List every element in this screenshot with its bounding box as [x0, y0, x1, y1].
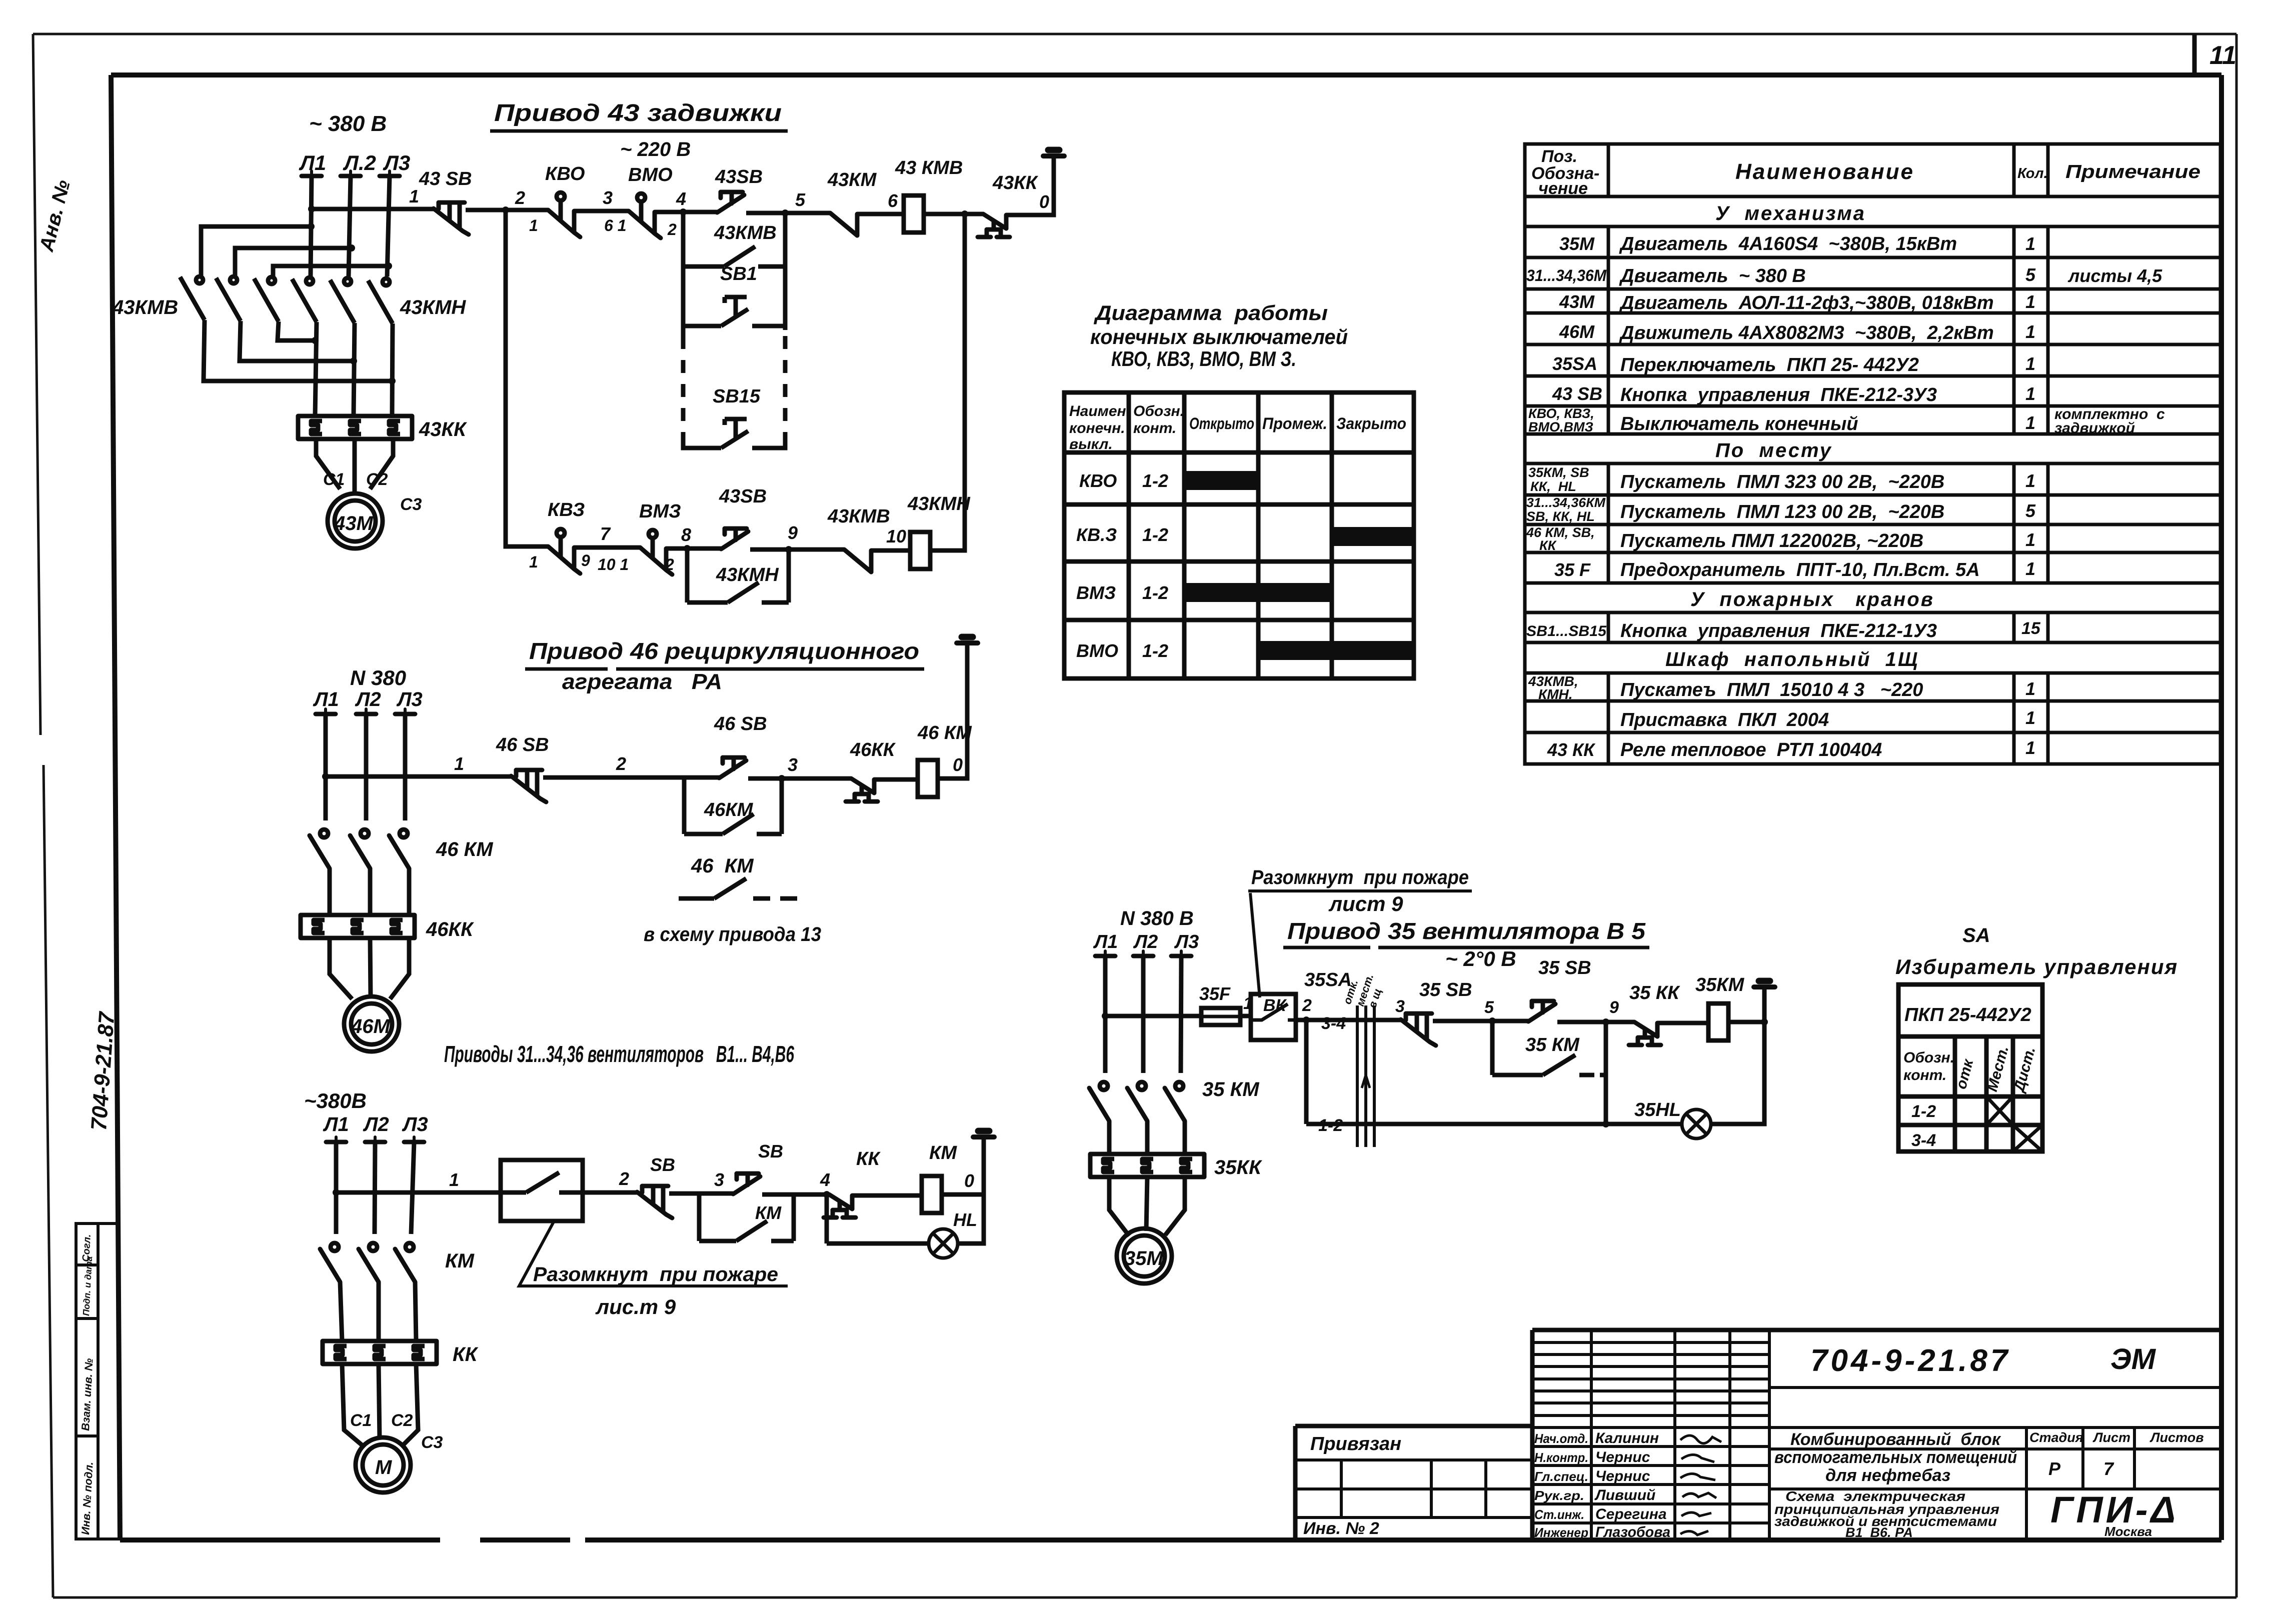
svg-text:3-4: 3-4: [1911, 1131, 1936, 1150]
wire ph3 to KK box: [1183, 1121, 1187, 1154]
svg-text:43КМ: 43КМ: [827, 169, 877, 190]
diagram table grid: [1064, 392, 1414, 678]
svg-text:35КМ, SВ: 35КМ, SВ: [1528, 465, 1589, 480]
wire lamp to ground vertical: [1711, 1022, 1764, 1124]
cable arrow: [1362, 1075, 1370, 1110]
aux contact 35KM holding: [1492, 1055, 1606, 1075]
wire phase L2: [375, 1142, 375, 1234]
svg-text:Москва: Москва: [2104, 1524, 2152, 1539]
svg-text:КМН.: КМН.: [1538, 686, 1573, 702]
svg-text:Л2: Л2: [355, 688, 381, 710]
svg-text:С2: С2: [391, 1411, 413, 1430]
svg-text:43КМН: 43КМН: [907, 493, 971, 514]
svg-text:SА: SА: [1962, 924, 1990, 946]
svg-text:15: 15: [2021, 619, 2041, 638]
signature squiggles: [1680, 1435, 1721, 1535]
svg-text:1: 1: [2025, 678, 2035, 699]
svg-text:Выключатель конечный: Выключатель конечный: [1620, 413, 1858, 434]
power contact KM ph1: [320, 1243, 340, 1282]
svg-text:35 КМ: 35 КМ: [1202, 1078, 1260, 1100]
aux contact KM holding: [699, 1221, 794, 1241]
branch 1-2 vertical: [1304, 1020, 1309, 1124]
svg-text:43М: 43М: [334, 512, 374, 534]
svg-text:Пускатель ПМЛ 122002В, ~220В: Пускатель ПМЛ 122002В, ~220В: [1620, 530, 1923, 551]
svg-text:35КК: 35КК: [1214, 1156, 1262, 1178]
node J2 on L2: [348, 244, 355, 251]
svg-text:35SА: 35SА: [1304, 969, 1352, 990]
svg-text:Предохранитель ППТ-10, Пл.Вст: Предохранитель ППТ-10, Пл.Вст. 5А: [1620, 559, 1980, 580]
svg-text:1: 1: [2025, 321, 2035, 342]
svg-text:КВО: КВО: [1079, 470, 1117, 491]
pushbutton 43SB NO row2: [721, 528, 748, 549]
svg-text:Наимен.: Наимен.: [1069, 403, 1130, 419]
svg-text:конт.: конт.: [1903, 1067, 1946, 1083]
svg-text:704-9-21.87: 704-9-21.87: [1810, 1343, 2010, 1378]
aux contact 46KM holding: [684, 814, 782, 834]
svg-text:ВМО: ВМО: [628, 164, 673, 185]
pushbutton 46SB NO: [719, 757, 746, 778]
svg-text:7: 7: [2103, 1458, 2114, 1479]
svg-text:35 F: 35 F: [1554, 559, 1591, 580]
svg-text:Избиратель управления: Избиратель управления: [1895, 955, 2178, 978]
svg-text:Поз.: Поз.: [1541, 147, 1577, 166]
svg-text:~ 380 В: ~ 380 В: [309, 111, 387, 136]
svg-text:43КМН: 43КМН: [400, 296, 466, 318]
svg-text:КК: КК: [1539, 538, 1557, 553]
thermal heater box 43KK: [298, 416, 412, 439]
svg-text:2: 2: [616, 753, 626, 774]
node B1: [389, 377, 396, 384]
bar VMO promezh-zakryto: [1258, 641, 1414, 660]
svg-text:Двигатель АОЛ-11-2ф3,~380В, 0: Двигатель АОЛ-11-2ф3,~380В, 018кВт: [1619, 292, 1994, 313]
coil KM: [922, 1176, 942, 1213]
wire ph1 to KK box: [340, 1282, 342, 1341]
power contact 46KM ph1: [310, 829, 330, 868]
svg-text:листы 4,5: листы 4,5: [2067, 265, 2162, 286]
wire ph2 to KK box: [377, 1282, 381, 1341]
svg-text:Ст.инж.: Ст.инж.: [1534, 1507, 1584, 1522]
svg-text:43КМН: 43КМН: [716, 564, 779, 585]
svg-text:9: 9: [1609, 998, 1619, 1017]
svg-text:КК: КК: [453, 1343, 479, 1365]
ground 35: [1754, 981, 1775, 987]
wire 46KK to coil: [874, 777, 918, 782]
jumper J1 L1 to contact1: [201, 226, 311, 276]
thermal contact 46KK: [846, 778, 878, 801]
svg-text:Н.контр.: Н.контр.: [1534, 1450, 1588, 1465]
svg-text:лист 9: лист 9: [1328, 892, 1403, 915]
X mark mest: [1986, 1096, 2013, 1125]
title underline 1: [525, 667, 924, 671]
limit switch KVZ: [548, 529, 580, 573]
svg-text:Калинин: Калинин: [1595, 1430, 1659, 1446]
svg-text:Переключатель ПКП 25- 442У2: Переключатель ПКП 25- 442У2: [1620, 354, 1919, 375]
svg-text:Л3: Л3: [383, 151, 410, 174]
wire to coil 43KMN: [871, 548, 910, 553]
pushbutton 46SB NC: [511, 770, 546, 802]
limit switch KVO: [548, 192, 580, 237]
svg-text:1: 1: [2025, 470, 2035, 491]
coil 46KM: [918, 760, 938, 797]
svg-text:в схему привода 13: в схему привода 13: [644, 923, 821, 945]
svg-text:46 КМ, SВ,: 46 КМ, SВ,: [1526, 525, 1595, 540]
terminal L2: [356, 709, 376, 714]
svg-text:КМ: КМ: [445, 1250, 475, 1272]
svg-text:Наименование: Наименование: [1735, 159, 1914, 184]
svg-text:SВ: SВ: [650, 1154, 675, 1175]
power contact 46KM ph2: [350, 829, 370, 868]
wire SBno to 46KK: [748, 776, 851, 781]
svg-text:1-2: 1-2: [1142, 524, 1168, 545]
bar VMZ otkryto-promezh: [1184, 583, 1332, 602]
coil 43KMV: [904, 195, 924, 232]
svg-text:1-2: 1-2: [1142, 470, 1168, 491]
svg-text:ВМО: ВМО: [1076, 640, 1118, 661]
node tap on L1: [322, 773, 329, 780]
title underline: [1283, 946, 1649, 949]
power contact 35KM ph3: [1165, 1082, 1185, 1121]
svg-text:2: 2: [1302, 996, 1312, 1015]
wire ph1 to KK: [328, 868, 332, 915]
wire contact6 lead: [392, 323, 393, 416]
svg-text:2: 2: [665, 555, 674, 573]
branch 1-2 wire to lamp: [1306, 1122, 1682, 1126]
svg-text:43КК: 43КК: [419, 418, 467, 440]
svg-text:SВ15: SВ15: [713, 386, 761, 407]
cable marker three lines: [1357, 1005, 1374, 1147]
svg-text:Привод 43 задвижки: Привод 43 задвижки: [494, 100, 782, 126]
svg-text:5: 5: [795, 189, 806, 210]
svg-text:Нач.отд.: Нач.отд.: [1534, 1431, 1588, 1446]
wire motor feed 2: [353, 439, 357, 494]
node 4 junction: [823, 1191, 830, 1198]
fuse 35F: [1201, 1008, 1240, 1025]
wire node2 to cable: [1296, 1018, 1401, 1022]
fire interlock box: [501, 1160, 583, 1221]
svg-text:Привод 35 вентилятора В 5: Привод 35 вентилятора В 5: [1287, 918, 1646, 944]
wire phase L3: [411, 1142, 414, 1234]
power contact 35KM ph2: [1127, 1082, 1147, 1121]
wire KK to coil: [852, 1193, 922, 1198]
node 2 junction: [502, 206, 509, 213]
svg-text:46КК: 46КК: [426, 918, 474, 940]
svg-text:10: 10: [886, 526, 906, 546]
svg-text:31...34,36КМ: 31...34,36КМ: [1526, 495, 1606, 510]
terminal L2: [341, 171, 361, 176]
branch vertical right row1: [783, 213, 788, 330]
wire VMO to 43SBopen: [655, 210, 717, 214]
svg-text:~380В: ~380В: [304, 1089, 367, 1112]
power contact KM ph2: [359, 1243, 379, 1282]
svg-text:С2: С2: [366, 470, 388, 489]
ground 46: [957, 637, 978, 643]
svg-text:2: 2: [515, 187, 525, 208]
svg-text:10 1: 10 1: [598, 555, 629, 573]
wire coil to ground: [938, 645, 967, 778]
wire ph1 to KK box: [1107, 1121, 1112, 1154]
wire control tap to 43SB: [312, 207, 434, 211]
svg-text:С1: С1: [350, 1411, 372, 1430]
power contact KM ph3: [395, 1243, 415, 1282]
svg-text:Диаграмма работы: Диаграмма работы: [1094, 301, 1328, 324]
svg-text:конечных выключателей: конечных выключателей: [1090, 325, 1348, 348]
svg-text:3: 3: [1395, 997, 1405, 1016]
svg-text:35 КМ: 35 КМ: [1525, 1034, 1580, 1055]
svg-text:43 КК: 43 КК: [1547, 739, 1596, 760]
limit switch VMO: [629, 193, 661, 238]
contactor 43KMV contact 1: [180, 276, 205, 320]
svg-text:для нефтебаз: для нефтебаз: [1825, 1466, 1950, 1485]
svg-text:ЭМ: ЭМ: [2110, 1343, 2156, 1375]
pushbutton SB NC: [637, 1186, 672, 1218]
wire ph3 to KK: [407, 868, 412, 915]
svg-text:Л1: Л1: [323, 1113, 349, 1135]
wire coil up to shared node: [930, 214, 965, 550]
svg-text:Пускатель ПМЛ 123 00 2В, ~22: Пускатель ПМЛ 123 00 2В, ~220В: [1620, 501, 1944, 522]
svg-text:Л3: Л3: [402, 1113, 428, 1135]
node tap on L1: [333, 1189, 340, 1196]
svg-text:Глазобова: Глазобова: [1595, 1524, 1670, 1540]
thermal heater box 46KK: [301, 915, 415, 938]
wire phase L1: [334, 1142, 339, 1234]
svg-text:46М: 46М: [351, 1015, 391, 1037]
svg-text:Л1: Л1: [313, 688, 339, 710]
svg-text:7: 7: [600, 523, 611, 544]
svg-text:0: 0: [1039, 191, 1049, 212]
svg-text:Открыто: Открыто: [1189, 414, 1254, 432]
pushbutton 35SB NO: [1528, 1001, 1555, 1021]
svg-text:Инв. № 2: Инв. № 2: [1303, 1519, 1379, 1538]
terminal L3: [395, 709, 415, 714]
svg-text:5: 5: [2025, 264, 2036, 285]
terminal L3: [1171, 951, 1191, 956]
holding branch row2 verticals: [685, 548, 690, 602]
ground c31: [973, 1131, 994, 1137]
svg-text:Ливший: Ливший: [1594, 1487, 1655, 1503]
svg-text:46 КМ: 46 КМ: [436, 838, 494, 860]
wire contact4 lead: [315, 322, 317, 416]
wire coil to ground node: [1728, 989, 1764, 1022]
wire 35SBnc to 35SBno: [1433, 1019, 1528, 1023]
ground row1: [1043, 150, 1064, 156]
svg-text:46КМ: 46КМ: [704, 799, 754, 820]
motor 46M: [344, 996, 399, 1051]
wire 43SBno to node5: [746, 211, 830, 215]
jumper J3 L3 to contact3: [273, 266, 389, 276]
svg-text:43SВ: 43SВ: [715, 166, 763, 187]
lamp branch vertical: [825, 1194, 829, 1243]
wire 35SBno to 35KK: [1557, 1020, 1634, 1024]
wire motor feed 3: [370, 439, 393, 489]
holding branch verticals 35KM: [1490, 1021, 1495, 1075]
svg-text:1: 1: [2025, 412, 2035, 433]
wire contact3 lead crossover to c4 column: [278, 321, 315, 340]
svg-text:1: 1: [2025, 353, 2035, 374]
svg-text:задвижкой: задвижкой: [2054, 420, 2135, 436]
wire to fuse: [1105, 1014, 1201, 1018]
svg-text:43КМВ: 43КМВ: [827, 506, 890, 527]
svg-text:КМ: КМ: [929, 1142, 957, 1163]
svg-text:4: 4: [676, 188, 686, 209]
svg-text:Л2: Л2: [1133, 931, 1158, 952]
wire 46SB to 46SBno: [543, 775, 719, 780]
power contact 35KM ph1: [1089, 1082, 1109, 1121]
svg-text:SВ: SВ: [758, 1141, 783, 1161]
svg-text:43М: 43М: [1559, 291, 1595, 312]
svg-text:Двигатель ~ 380 В: Двигатель ~ 380 В: [1619, 265, 1806, 286]
svg-text:1: 1: [2025, 291, 2035, 312]
wire ph2 to KK box: [1145, 1121, 1150, 1154]
svg-text:1: 1: [2025, 558, 2035, 579]
svg-text:46КК: 46КК: [850, 739, 896, 760]
svg-text:КМ: КМ: [755, 1202, 782, 1223]
svg-text:0: 0: [964, 1170, 974, 1191]
svg-text:НL: НL: [953, 1209, 977, 1230]
terminal L1: [1095, 951, 1115, 956]
svg-text:КК: КК: [856, 1148, 881, 1169]
node lamp branch: [1602, 1120, 1609, 1127]
svg-text:Л2: Л2: [363, 1113, 389, 1135]
svg-text:Кнопка управления ПКЕ-212-1У: Кнопка управления ПКЕ-212-1У3: [1620, 620, 1937, 641]
svg-text:1: 1: [454, 753, 464, 774]
svg-text:Двигатель 4А160S4 ~380В, 15к: Двигатель 4А160S4 ~380В, 15кВт: [1619, 233, 1957, 254]
svg-text:Кол.: Кол.: [2017, 165, 2048, 181]
svg-text:1: 1: [409, 186, 419, 206]
aux contact 43KMN holding: [687, 582, 789, 602]
svg-text:4: 4: [820, 1169, 830, 1190]
svg-text:2: 2: [619, 1168, 629, 1189]
svg-text:Листов: Листов: [2149, 1430, 2204, 1445]
svg-text:46 SВ: 46 SВ: [496, 734, 549, 755]
svg-text:Шкаф напольный 1Щ: Шкаф напольный 1Щ: [1665, 648, 1919, 670]
node gnd junction: [1761, 1018, 1768, 1025]
svg-text:43SВ: 43SВ: [719, 486, 767, 507]
svg-text:35 КК: 35 КК: [1629, 982, 1680, 1003]
wire motor feed 1: [342, 1364, 363, 1446]
svg-text:6 1: 6 1: [604, 216, 626, 234]
svg-text:выкл.: выкл.: [1069, 436, 1113, 452]
svg-text:ПКП 25-442У2: ПКП 25-442У2: [1904, 1004, 2031, 1025]
wire phase L3: [387, 176, 390, 276]
svg-text:1: 1: [2025, 737, 2035, 758]
node B2: [350, 357, 357, 364]
svg-text:35М: 35М: [1124, 1247, 1164, 1269]
node 3 junction: [778, 775, 785, 782]
contactor 43KMV contact 2: [216, 276, 241, 321]
terminal L3: [404, 1137, 424, 1142]
wire 43KM to coil: [857, 212, 904, 216]
node B3: [312, 337, 319, 344]
wire KVO to VMO: [574, 209, 629, 213]
thermal heater box KK: [323, 1341, 437, 1364]
node 9 junction: [785, 546, 792, 553]
node J1 on L1: [308, 223, 315, 230]
wire phase L1: [311, 176, 312, 276]
svg-text:Разомкнут при пожаре: Разомкнут при пожаре: [1251, 866, 1469, 888]
title block main outline: [1295, 1330, 2220, 1540]
svg-text:1: 1: [2025, 529, 2035, 550]
SA table grid: [1898, 984, 2042, 1151]
terminal L1: [326, 1137, 346, 1142]
wire VMZ to SB: [666, 546, 721, 551]
wire phase L2: [1141, 956, 1146, 1073]
wire motor feed 2: [379, 1364, 380, 1439]
wire phase L1: [324, 714, 328, 820]
svg-text:чение: чение: [1538, 179, 1588, 198]
pushbutton SB1: [683, 297, 785, 326]
svg-text:ВМЗ: ВМЗ: [1076, 582, 1116, 603]
svg-text:Инженер: Инженер: [1534, 1525, 1588, 1540]
motor 43M: [328, 493, 383, 548]
contactor 43KMN contact 6: [368, 278, 393, 323]
svg-text:С3: С3: [421, 1433, 443, 1452]
svg-text:46 КМ: 46 КМ: [691, 855, 754, 877]
svg-text:Приставка ПКЛ 2004: Приставка ПКЛ 2004: [1620, 709, 1829, 730]
wire motor feed 1: [330, 938, 352, 999]
node J3 on L3: [385, 262, 392, 269]
wire contact1 lead crossover to c6 column: [204, 320, 392, 381]
svg-text:3-4: 3-4: [1321, 1014, 1346, 1033]
wire lamp to node0: [958, 1194, 984, 1243]
svg-text:Разомкнут при пожаре: Разомкнут при пожаре: [533, 1263, 778, 1285]
svg-text:1: 1: [529, 553, 538, 571]
svg-text:С3: С3: [400, 495, 422, 514]
contact inside VK: [1251, 1004, 1296, 1020]
svg-text:1-2: 1-2: [1142, 640, 1168, 661]
node tap on L1: [1102, 1012, 1109, 1019]
svg-text:Гл.спец.: Гл.спец.: [1534, 1469, 1588, 1484]
svg-text:КВО: КВО: [545, 163, 585, 184]
node 5 junction: [782, 209, 789, 216]
wire ph2 to KK: [368, 868, 373, 915]
node shared vertical: [961, 210, 968, 217]
node 5 junction: [1489, 1017, 1496, 1024]
svg-text:43КК: 43КК: [992, 172, 1039, 193]
svg-text:Пускатель ПМЛ 323 00 2В, ~22: Пускатель ПМЛ 323 00 2В, ~220В: [1620, 471, 1944, 492]
contactor 43KMV contact 3: [254, 277, 279, 321]
branch vertical left row1: [681, 212, 686, 336]
svg-text:Л1: Л1: [1093, 931, 1118, 952]
node control tap on L1: [308, 205, 315, 212]
svg-text:Обозн.: Обозн.: [1903, 1049, 1954, 1066]
wire 35KK to coil: [1657, 1021, 1708, 1025]
title underline: [490, 129, 788, 133]
wire 43SB to node2: [466, 208, 548, 212]
X mark dist: [2013, 1125, 2042, 1151]
sheet number box top right: [2192, 34, 2197, 75]
svg-text:Рук.гр.: Рук.гр.: [1534, 1488, 1584, 1503]
svg-text:Серегина: Серегина: [1595, 1506, 1667, 1522]
svg-text:43 SВ: 43 SВ: [1552, 383, 1602, 404]
dashed continuation right: [783, 336, 788, 435]
svg-text:В1_В6. РА: В1_В6. РА: [1845, 1525, 1913, 1540]
svg-text:5: 5: [1484, 998, 1494, 1017]
node 4 junction: [680, 208, 687, 215]
svg-text:46 SВ: 46 SВ: [714, 713, 767, 734]
svg-text:SВ, КК, НL: SВ, КК, НL: [1526, 509, 1595, 524]
svg-text:43КМВ: 43КМВ: [714, 222, 777, 243]
svg-text:Л3: Л3: [396, 688, 423, 710]
svg-text:~ 2°0 В: ~ 2°0 В: [1445, 947, 1516, 970]
wire contact2 lead crossover to c5 column: [240, 321, 354, 361]
contact inside fire box: [501, 1172, 583, 1192]
underline note: [1248, 889, 1472, 892]
wire phase L1: [1103, 956, 1108, 1073]
contact 43KMV NO row2: [844, 549, 871, 572]
svg-text:ВМЗ: ВМЗ: [639, 501, 681, 522]
svg-text:35 SВ: 35 SВ: [1419, 979, 1472, 1000]
svg-text:Чернис: Чернис: [1595, 1468, 1650, 1484]
